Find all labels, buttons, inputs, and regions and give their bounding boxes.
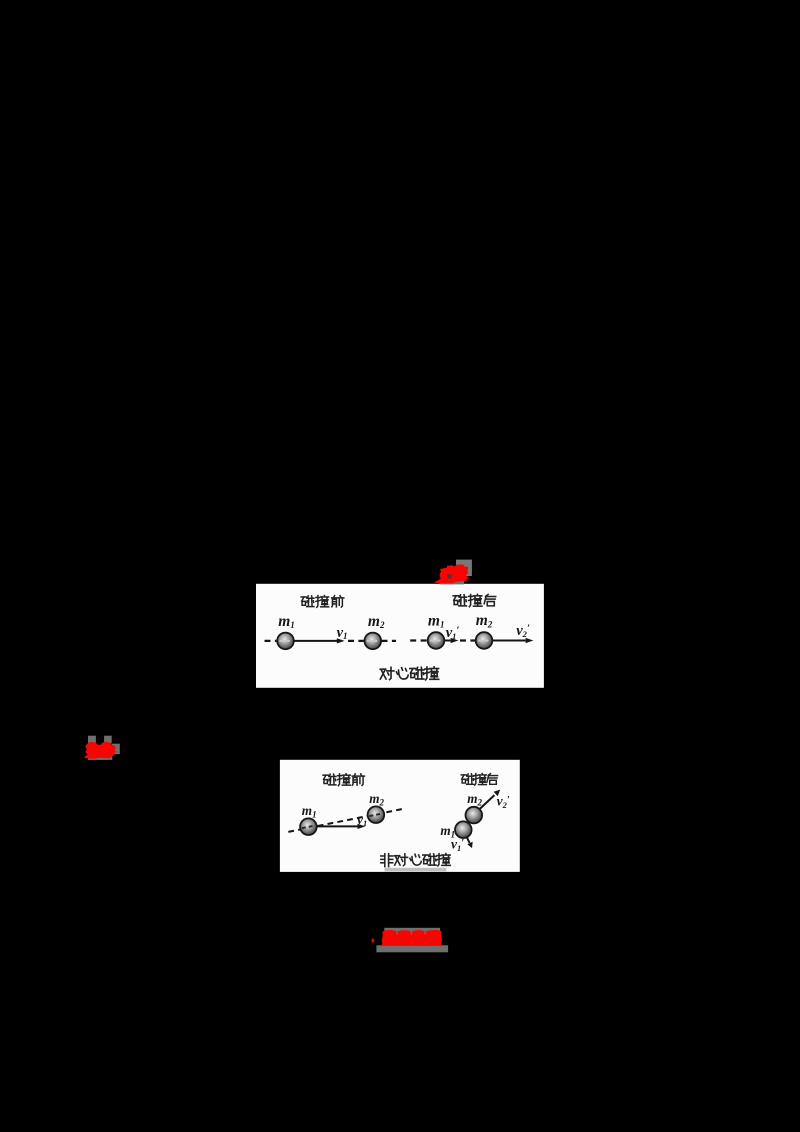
figure 1 header 碰撞后: [453, 594, 495, 606]
fig2 caption 非对心碰撞: [381, 854, 450, 867]
red scribble mark 1: [434, 564, 470, 583]
red mark 2 gray block right: [112, 744, 120, 755]
red mark 3 char blob 2: [397, 930, 411, 946]
red mark 3 char blob 4: [425, 930, 442, 946]
fig2 ghost text bar under caption: [385, 868, 447, 872]
figure 2 header 碰撞后: [461, 774, 497, 786]
red scribble mark 1 dark notch: [447, 574, 452, 578]
fig2 ball m2': [466, 807, 483, 824]
fig1 long arrow v2': [493, 640, 526, 642]
fig1 dashed segment right of ball m2: [382, 640, 397, 642]
figure 2 white panel: [280, 760, 520, 872]
fig1 arrow v1: [294, 640, 338, 642]
red mark 3 left speck: [372, 939, 375, 943]
fig1 ball m2: [365, 633, 382, 650]
red mark 3 char blob 1: [382, 930, 397, 946]
fig1 dash highlight across ball m1': [430, 640, 443, 642]
red scribble mark 1 gray block: [456, 560, 472, 576]
fig2 slanted dashed line: [288, 809, 404, 832]
red mark 3 char blob 3: [412, 930, 426, 946]
fig1 dash highlight across ball m1: [280, 640, 293, 642]
fig2 arrow v1': [467, 837, 470, 843]
red scribble mark 1 gray strip: [440, 581, 464, 584]
red mark 3 baseline strip: [382, 943, 442, 945]
red mark 3 connecting band: [383, 935, 442, 944]
fig1 short arrow v1': [445, 640, 451, 642]
fig1 ball m1': [428, 632, 445, 649]
fig1 dashed line segment left of ball m1: [265, 640, 277, 642]
figure 1 header 碰撞前: [301, 596, 344, 608]
red mark 2 gray bottom strip: [88, 756, 112, 760]
fig1 ball m2': [476, 632, 493, 649]
fig1 dash highlight across ball m2': [478, 640, 491, 642]
figure 2 header 碰撞前: [323, 774, 364, 786]
fig2 dash highlight across ball m1: [302, 826, 315, 829]
fig1 dashed segment left of ball m1': [410, 639, 427, 641]
fig2 ball m2: [368, 806, 385, 823]
red mark 3 gray block upper: [384, 928, 440, 946]
red mark 2 gray bar left: [88, 736, 96, 744]
fig1 dashed segment between arrow tip and ball m2: [348, 640, 364, 642]
red mark 2 gray bar right: [104, 736, 112, 744]
fig1 dash highlight across ball m2: [367, 640, 380, 642]
fig2 dash highlight across ball m2: [369, 813, 382, 816]
fig2 ball m1: [300, 818, 317, 835]
figure 1 white panel: [256, 584, 544, 688]
fig1 caption 对心碰撞: [380, 667, 438, 680]
fig1 dashed segment between v1' tip and ball m2': [460, 639, 475, 641]
red mark 2 scribble: [84, 742, 117, 759]
red mark 3 gray strip lower: [376, 945, 448, 952]
fig2 arrow v2': [480, 795, 495, 809]
fig2 ball m1': [455, 821, 472, 838]
fig1 ball m1: [277, 633, 294, 650]
fig2 arrow v1: [317, 825, 358, 827]
